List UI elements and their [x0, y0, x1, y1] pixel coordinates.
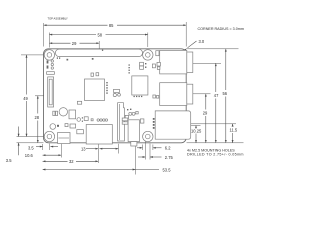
pin ticks below header left end [57, 57, 60, 58]
microSD / DSI connector left [48, 77, 54, 107]
extension lines right [187, 48, 239, 50]
dimension 58 [49, 32, 147, 37]
dimension 56 right [223, 49, 228, 143]
node header tick [102, 50, 103, 51]
board outline [44, 49, 187, 143]
audio jack [128, 120, 139, 146]
svg-text:10.25: 10.25 [191, 129, 202, 134]
left edge small parts [47, 60, 55, 74]
svg-text:58: 58 [98, 32, 103, 37]
dimension 3.5 left vertical [6, 127, 44, 163]
USB connector top [160, 50, 193, 74]
capacitors near header right [129, 62, 161, 73]
camera connector CSI [118, 103, 125, 141]
svg-text:85: 85 [109, 23, 114, 28]
svg-text:13: 13 [81, 147, 86, 152]
dimension 29 top [49, 41, 99, 46]
svg-text:3.0: 3.0 [199, 39, 205, 44]
dimension 3.5 bottom [28, 144, 58, 151]
svg-text:2.75: 2.75 [165, 155, 174, 160]
pads above HDMI [91, 119, 108, 121]
svg-text:29: 29 [72, 41, 77, 46]
svg-text:49: 49 [23, 96, 28, 101]
svg-text:47: 47 [214, 93, 219, 98]
dimension 10.6 bottom [25, 144, 62, 158]
svg-text:6.2: 6.2 [165, 146, 171, 151]
USB hub chip U2 [132, 76, 148, 95]
svg-text:DRILLED TO 2.75+/- 0.05mm: DRILLED TO 2.75+/- 0.05mm [187, 152, 244, 156]
parts between SoC and hub chip [113, 89, 120, 96]
svg-text:10.6: 10.6 [25, 153, 34, 158]
HDMI connector [86, 125, 112, 145]
svg-text:TOP ASSEMBLY: TOP ASSEMBLY [48, 17, 69, 21]
dimension 13 bottom [81, 144, 118, 154]
SoC via dots [106, 82, 107, 94]
node pin1 marker [98, 53, 100, 55]
svg-text:3.5: 3.5 [28, 146, 34, 151]
mounting hole bottom-left [44, 131, 54, 141]
dimension 29 right [203, 94, 208, 143]
svg-text:32: 32 [69, 159, 74, 164]
dimension 28 left [35, 96, 45, 143]
mounting hole top-right [143, 50, 153, 60]
corner radius leader 3.0 [184, 39, 205, 51]
dimension 85 [44, 23, 187, 28]
svg-text:28: 28 [35, 115, 40, 120]
dimension 32 bottom [43, 144, 99, 164]
micro USB power [58, 133, 70, 144]
dimension 10.25 right [191, 126, 202, 143]
pads left of ethernet [153, 118, 155, 129]
chip pads [134, 96, 143, 97]
dimension 2.75 drill [138, 142, 173, 160]
small parts left of USB ports [153, 51, 160, 98]
SoC U1 [85, 79, 105, 101]
dimension 47 right [214, 63, 219, 143]
svg-text:56: 56 [223, 91, 228, 96]
mounting hole top-left [44, 50, 54, 60]
GPIO header J8 [55, 49, 142, 56]
ethernet jack [155, 111, 191, 139]
USB connector bottom [160, 83, 193, 106]
dimension 6.2 hole pad [137, 145, 171, 151]
svg-text:CORNER RADIUS = 3.0mm: CORNER RADIUS = 3.0mm [198, 27, 244, 31]
extension lines top [43, 23, 45, 47]
mounting hole bottom-right [143, 131, 153, 141]
svg-text:53.5: 53.5 [163, 168, 172, 173]
dimension 49 left [17, 55, 45, 137]
resistor cluster below header [67, 58, 94, 61]
svg-text:29: 29 [203, 110, 208, 115]
dimension 11.5 right [230, 124, 238, 143]
dimension 53.5 bottom [43, 146, 172, 175]
svg-text:3.5: 3.5 [6, 158, 12, 163]
parts right of camera connector [125, 109, 138, 119]
svg-text:11.5: 11.5 [230, 127, 238, 132]
bottom-left parts: regulator area [50, 101, 88, 134]
small squares left of SoC top [91, 73, 99, 77]
parts above camera connector [122, 118, 144, 124]
